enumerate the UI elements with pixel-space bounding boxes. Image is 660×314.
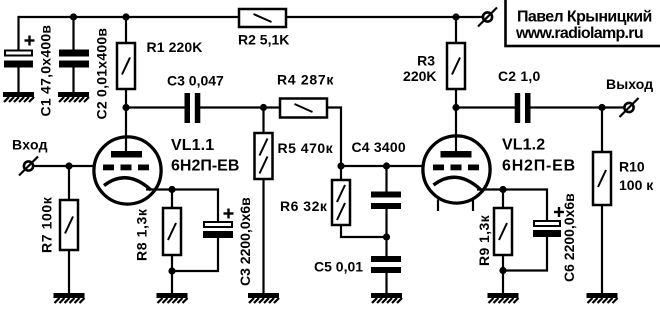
ground below C2 — [58, 92, 89, 97]
svg-text:R8 1,3к: R8 1,3к — [134, 208, 150, 261]
power supply terminal — [483, 12, 492, 21]
ground below C5 — [371, 293, 402, 298]
svg-text:R7 100к: R7 100к — [39, 196, 55, 253]
wire R6 bottom to C4/C5 node — [341, 225, 387, 237]
resistor R8 1,3k — [171, 190, 173, 209]
svg-text:C3 2200,0х6в: C3 2200,0х6в — [237, 197, 253, 286]
wire C3 to node — [200, 106, 264, 108]
wire R8 bottom to node — [171, 255, 173, 271]
svg-text:R2 5,1K: R2 5,1K — [238, 32, 289, 48]
capacitor C5 0,01 — [385, 237, 387, 256]
wire cathode VL1.1 — [146, 188, 172, 190]
triode VL1.1 envelope — [94, 137, 161, 204]
node cathode2 — [499, 186, 506, 193]
svg-text:R3: R3 — [417, 53, 435, 69]
capacitor C2 0,01x400v film — [72, 17, 74, 50]
node R6/grid row — [337, 162, 344, 169]
svg-text:R9 1,3к: R9 1,3к — [476, 214, 492, 266]
ground below R7 — [54, 293, 85, 298]
triode VL1.2 envelope — [423, 136, 490, 203]
svg-text:R5 470к: R5 470к — [278, 140, 334, 156]
svg-text:VL1.2: VL1.2 — [502, 137, 545, 154]
capacitor C6 2200,0x6v cathode bypass 2 — [503, 190, 547, 221]
resistor R2 5,1K — [239, 9, 286, 27]
VL1.1 cathode arc — [104, 178, 151, 190]
wire anode VL1.2 — [455, 108, 457, 153]
capacitor C3 2200,0x6v cathode bypass 1 — [172, 190, 218, 222]
ground below R8 — [157, 293, 188, 298]
wire node to ground — [171, 271, 173, 294]
svg-text:C2 1,0: C2 1,0 — [498, 68, 540, 84]
node rail R3 — [452, 13, 459, 20]
wire top supply rail right segment — [286, 16, 483, 18]
svg-text:www.radiolamp.ru: www.radiolamp.ru — [515, 25, 643, 42]
svg-text:R1 220K: R1 220K — [147, 39, 203, 55]
node rail C2 — [70, 13, 77, 20]
wire anode VL1.1 — [125, 108, 127, 153]
capacitor C1 47,0x400v electrolytic — [17, 16, 19, 50]
wire R10 to ground — [601, 205, 603, 294]
capacitor C3 0,047 coupling — [185, 93, 191, 123]
svg-text:C1 47,0х400в: C1 47,0х400в — [38, 25, 54, 117]
wire cathode VL1.2 — [477, 188, 503, 190]
ground below R9 — [488, 293, 519, 298]
VL1.2 cathode arc — [434, 177, 481, 189]
ground below R5 — [248, 293, 279, 298]
wire C2 to output — [530, 106, 625, 108]
VL1.2 anode plate — [441, 151, 472, 158]
resistor R7 100k — [68, 166, 70, 200]
wire node to ground (R9) — [502, 271, 504, 294]
wire anode row to C2 out — [456, 106, 515, 108]
svg-text:220K: 220K — [403, 68, 436, 84]
svg-text:Вход: Вход — [12, 137, 48, 153]
node rail R1 — [122, 13, 129, 20]
node R8/C3 bottom — [168, 267, 175, 274]
node anode1/R1 — [122, 104, 129, 111]
resistor R9 1,3k — [502, 190, 504, 209]
svg-text:R6 32к: R6 32к — [280, 198, 328, 214]
input terminal — [24, 161, 33, 170]
output terminal — [624, 103, 633, 112]
svg-text:Выход: Выход — [606, 76, 653, 92]
resistor R1 220K — [125, 17, 127, 43]
wire signal row to C3 — [126, 106, 185, 108]
wire top supply rail left segment — [19, 16, 240, 18]
node output/R10 — [598, 104, 605, 111]
node C4/C5/R6 — [383, 233, 390, 240]
wire input to grid VL1.1 — [33, 165, 93, 167]
node anode2/R3 — [452, 104, 459, 111]
svg-text:6Н2П-ЕВ: 6Н2П-ЕВ — [502, 158, 576, 175]
VL1.2 grid (dashed) — [433, 165, 444, 171]
svg-text:R4 287к: R4 287к — [277, 72, 334, 88]
wire R7 to ground — [68, 250, 70, 294]
svg-text:C5 0,01: C5 0,01 — [314, 259, 363, 275]
svg-text:C2 0,01х400в: C2 0,01х400в — [94, 28, 110, 120]
svg-text:VL1.1: VL1.1 — [171, 137, 214, 154]
wire R5 down to ground — [262, 179, 264, 294]
svg-text:6Н2П-ЕВ: 6Н2П-ЕВ — [171, 158, 239, 175]
resistor R3 220K — [455, 17, 457, 43]
capacitor C2 1,0 output coupling — [515, 93, 521, 123]
svg-text:C6 2200,0х6в: C6 2200,0х6в — [561, 193, 577, 282]
author box — [506, 0, 660, 46]
svg-text:R10: R10 — [619, 159, 645, 175]
node cathode1 — [168, 186, 175, 193]
wire R9 bottom to node — [502, 255, 504, 271]
node C4/grid row — [383, 162, 390, 169]
VL1.1 grid (dashed) — [103, 165, 114, 171]
node R9/C6 bottom — [499, 267, 506, 274]
resistor R5 470k — [262, 108, 264, 134]
node input/R7 — [65, 162, 72, 169]
capacitor C4 3400 — [385, 166, 387, 192]
svg-text:C4 3400: C4 3400 — [352, 139, 406, 155]
ground below R10 — [587, 293, 618, 298]
resistor R4 287k — [264, 106, 281, 108]
VL1.2 heater pins — [437, 200, 439, 212]
VL1.1 anode plate — [111, 151, 142, 158]
node C3/R4/R5 — [260, 104, 267, 111]
resistor R10 100k — [601, 108, 603, 153]
svg-text:C3 0,047: C3 0,047 — [167, 73, 224, 89]
svg-text:100 к: 100 к — [619, 177, 654, 193]
wire R4 right down to grid row — [327, 108, 341, 167]
svg-text:Павел Крыницкий: Павел Крыницкий — [517, 9, 652, 26]
ground below C1 — [3, 92, 34, 97]
resistor R6 32k — [340, 166, 342, 180]
wire grid row to VL1.2 — [341, 165, 423, 167]
